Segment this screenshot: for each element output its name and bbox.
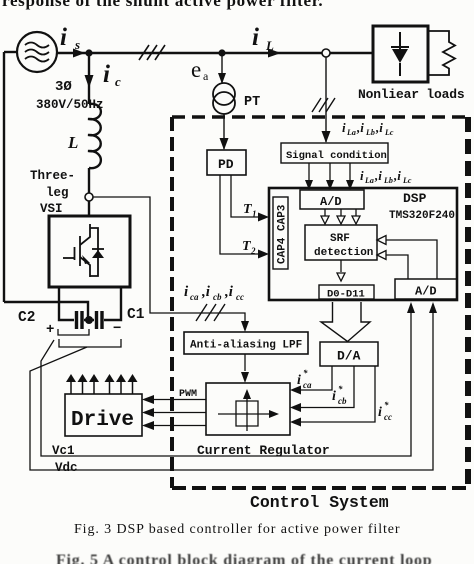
wire VSI left leg	[59, 287, 74, 320]
label ica icb icc	[184, 284, 244, 302]
svg-text:leg: leg	[46, 186, 69, 200]
drive gate arrows up	[66, 374, 138, 394]
block arrow D0-D11 to D/A	[321, 302, 370, 342]
svg-text:c: c	[115, 74, 121, 89]
wire ica* from D/A	[298, 366, 332, 390]
wire source left to left rail	[4, 51, 17, 53]
svg-text:i: i	[60, 24, 67, 51]
label is	[60, 24, 80, 52]
svg-text:*: *	[384, 400, 389, 410]
wire signal tap down	[325, 57, 327, 142]
svg-text:i: i	[184, 284, 189, 300]
hysteresis loop	[236, 401, 258, 426]
SRF detection box	[305, 225, 377, 260]
label iLa iLb iLc (upper)	[342, 120, 394, 137]
resistor load	[428, 31, 455, 75]
wire LPF to current regulator	[244, 354, 246, 371]
node open circle (VSI output)	[85, 193, 93, 201]
svg-text:PD: PD	[218, 157, 234, 172]
svg-text:Fig. 3 DSP based controller fo: Fig. 3 DSP based controller for active p…	[74, 522, 400, 537]
hysteresis symbol axes	[218, 392, 276, 431]
svg-text:cb: cb	[338, 396, 347, 406]
svg-text:,i: ,i	[224, 284, 234, 300]
node junction dot (ic tap)	[85, 49, 92, 56]
wire icb* from D/A	[298, 366, 354, 408]
slashes on bus	[139, 45, 165, 60]
svg-text:La: La	[364, 176, 374, 185]
label T2	[242, 239, 256, 256]
svg-text:L: L	[265, 38, 274, 53]
label iL	[252, 24, 274, 53]
svg-text:i: i	[252, 24, 259, 51]
A/D box (right)	[395, 279, 457, 299]
capacitor C2 plates	[77, 311, 83, 329]
wire T2 from PD	[220, 175, 264, 254]
svg-text:,i: ,i	[201, 284, 211, 300]
source G1 (3-phase AC source)	[17, 32, 57, 72]
svg-text:*: *	[338, 384, 343, 394]
open arrow SRF to D0-D11	[340, 260, 342, 272]
cut-off text line above figure	[2, 0, 323, 10]
svg-text:Lb: Lb	[383, 176, 393, 185]
arrow into anti-aliasing LPF	[241, 321, 249, 332]
node junction dot (PT tap)	[218, 49, 225, 56]
svg-text:+: +	[46, 322, 54, 338]
svg-text:i: i	[360, 168, 364, 183]
label ica*	[297, 368, 312, 390]
label icb*	[332, 384, 347, 406]
svg-text:Lc: Lc	[402, 176, 412, 185]
dashed control-system border top	[172, 115, 467, 118]
svg-text:1: 1	[252, 209, 257, 219]
svg-text:i: i	[103, 61, 110, 88]
label ea	[191, 57, 209, 83]
wire PT to PD	[223, 114, 225, 149]
svg-text:CAP4 CAP3: CAP4 CAP3	[277, 204, 289, 264]
svg-text:Three-: Three-	[30, 169, 75, 183]
svg-text:,i: ,i	[374, 168, 382, 183]
arrow iL on bus	[268, 49, 281, 58]
svg-text:C2: C2	[18, 310, 35, 326]
D/A box	[320, 342, 378, 366]
wire PT tap down	[221, 53, 223, 84]
svg-text:response of the shunt active p: response of the shunt active power filte…	[2, 0, 323, 10]
arrows PWM into Drive	[142, 395, 154, 430]
Nonliear loads box	[373, 26, 428, 82]
svg-text:Fig. 5 A control block diagram: Fig. 5 A control block diagram of the cu…	[56, 552, 432, 564]
label Three-leg VSI	[30, 169, 75, 216]
VSI box	[49, 216, 130, 287]
svg-text:,i: ,i	[356, 120, 364, 135]
open arrows A/D to SRF	[325, 209, 356, 217]
wire inductor to node	[88, 168, 90, 193]
svg-text:Current Regulator: Current Regulator	[197, 443, 330, 458]
svg-text:PT: PT	[244, 95, 260, 110]
A/D box (top)	[300, 190, 364, 209]
svg-text:2: 2	[250, 246, 256, 256]
inductor L	[88, 104, 101, 168]
Drive box	[65, 394, 142, 436]
slashes on sense wire	[196, 304, 225, 321]
dashed control-system border left	[170, 117, 174, 488]
svg-text:Signal condition: Signal condition	[286, 150, 387, 162]
svg-text:Vdc: Vdc	[55, 461, 78, 475]
svg-text:cc: cc	[384, 412, 392, 422]
svg-text:,i: ,i	[375, 120, 383, 135]
wire ic branch down	[88, 53, 90, 104]
svg-text:A/D: A/D	[415, 285, 437, 299]
wire left rail to capacitor midpoint	[4, 302, 88, 318]
arrow is on bus	[73, 49, 85, 58]
svg-text:C1: C1	[127, 307, 145, 323]
svg-text:cc: cc	[236, 292, 244, 302]
CAP4 CAP3 box	[273, 197, 288, 269]
svg-text:*: *	[303, 368, 308, 378]
label icc*	[378, 400, 392, 422]
svg-text:detection: detection	[314, 247, 373, 259]
svg-text:La: La	[346, 128, 356, 137]
bracket under C1 C2	[59, 339, 121, 347]
svg-text:−: −	[113, 321, 121, 337]
label T1	[243, 202, 257, 219]
svg-text:ca: ca	[190, 292, 199, 302]
svg-text:D/A: D/A	[337, 349, 361, 364]
arrow ic	[85, 75, 94, 88]
DSP box	[269, 188, 457, 300]
svg-text:s: s	[74, 37, 80, 52]
dashed control-system border bottom	[172, 486, 467, 490]
wire Vdc sense	[30, 304, 433, 470]
slashes on signal wire	[312, 98, 335, 112]
node open circle (signal tap)	[322, 49, 330, 57]
svg-text:i: i	[297, 373, 301, 388]
wire T1 from PD	[231, 175, 264, 217]
wire node to VSI	[88, 201, 90, 216]
svg-text:3Ø: 3Ø	[55, 79, 72, 95]
bracket under C2	[58, 329, 89, 335]
wires signal condition to A/D	[309, 163, 350, 184]
dashed control-system border right	[465, 117, 471, 488]
wire icc* from D/A	[298, 366, 375, 422]
transistor IGBT with diode	[63, 224, 104, 277]
capacitor C1 plates	[97, 311, 103, 329]
svg-text:cb: cb	[213, 292, 222, 302]
svg-text:ca: ca	[303, 380, 312, 390]
transformer PT	[213, 83, 235, 105]
svg-text:PWM: PWM	[179, 389, 197, 400]
arrow Vc1 into A/D	[407, 302, 415, 313]
svg-text:SRF: SRF	[330, 233, 350, 245]
svg-text:Vc1: Vc1	[52, 444, 75, 458]
svg-text:Control System: Control System	[250, 493, 389, 512]
label ic	[103, 61, 121, 89]
label iLa iLb iLc (lower)	[360, 168, 412, 185]
svg-text:a: a	[203, 69, 209, 83]
svg-text:Lc: Lc	[384, 128, 394, 137]
node capacitor midpoint dot	[85, 316, 93, 324]
svg-text:i: i	[342, 120, 346, 135]
Anti-aliasing LPF box	[184, 332, 308, 354]
svg-text:A/D: A/D	[320, 195, 342, 209]
svg-text:e: e	[191, 57, 201, 82]
wire left rail down	[3, 52, 5, 302]
svg-text:Lb: Lb	[365, 128, 375, 137]
wire Vc1 sense	[41, 304, 411, 456]
svg-text:i: i	[332, 389, 336, 404]
wire main bus	[57, 52, 373, 54]
svg-text:,i: ,i	[393, 168, 401, 183]
arrow Vdc into A/D	[429, 302, 437, 313]
D0-D11 box	[319, 285, 374, 299]
wire A/D feedback to SRF lower	[385, 255, 408, 279]
svg-text:D0-D11: D0-D11	[327, 289, 365, 301]
svg-text:VSI: VSI	[40, 202, 63, 216]
svg-text:i: i	[378, 405, 382, 420]
svg-text:DSP: DSP	[403, 191, 427, 206]
wire A/D feedback to SRF upper	[385, 240, 437, 279]
svg-text:L: L	[67, 133, 78, 152]
wire current sense tap from VSI output	[93, 197, 245, 330]
PD box	[207, 150, 246, 175]
svg-text:TMS320F240: TMS320F240	[389, 210, 455, 222]
wire VSI right leg	[104, 287, 121, 320]
Signal condition box	[281, 143, 388, 163]
Current Regulator box	[206, 383, 290, 435]
wire PWM lines	[152, 400, 206, 426]
wire cap midpoint stubs	[84, 319, 94, 321]
diode	[391, 32, 409, 76]
svg-text:Nonliear loads: Nonliear loads	[358, 87, 465, 102]
svg-text:Drive: Drive	[71, 409, 134, 432]
arrow LPF into current regulator	[241, 372, 249, 383]
svg-text:Anti-aliasing LPF: Anti-aliasing LPF	[190, 340, 302, 352]
